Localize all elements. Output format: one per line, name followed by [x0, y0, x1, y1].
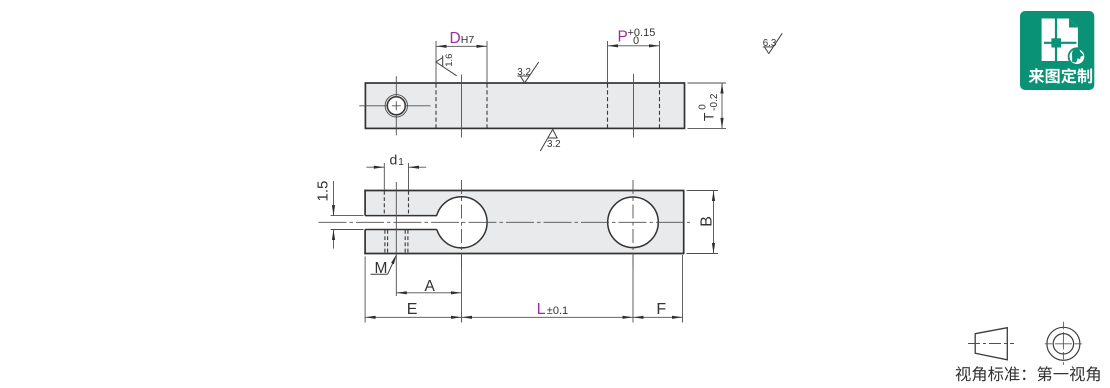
hidden hole P (dashed edges)	[608, 84, 660, 129]
svg-text:1.6: 1.6	[444, 54, 455, 67]
slit (white slot)	[364, 216, 444, 230]
thread hole M end view: center lines	[359, 76, 430, 137]
bar outline (plan view, open at slit)	[364, 190, 683, 255]
thread hole hidden lines (upper section, clearance d1)	[384, 191, 408, 215]
roughness symbol 1.6 (rotated, on D extension line)	[436, 56, 457, 76]
svg-text:1.5: 1.5	[315, 181, 332, 202]
svg-text:3.2: 3.2	[517, 67, 531, 78]
dimension E / L / F extension lines	[365, 255, 682, 323]
bar body (plan view)	[365, 191, 684, 254]
dimension P +0.15/0	[608, 41, 660, 82]
badge circle icon	[1069, 48, 1086, 65]
svg-text:T: T	[701, 112, 717, 121]
caption	[956, 366, 1100, 381]
svg-text:6.3: 6.3	[763, 38, 777, 49]
bar body (side view)	[365, 83, 684, 128]
main horizontal center line	[319, 221, 691, 223]
cone front view circles	[1047, 327, 1080, 360]
hole P center line	[633, 74, 635, 138]
thread hole M end view: circles	[385, 95, 407, 117]
svg-text:A: A	[425, 278, 436, 295]
svg-text:0: 0	[698, 104, 709, 110]
svg-text:P: P	[618, 29, 628, 46]
hidden hole D (dashed edges)	[436, 84, 487, 129]
svg-text:±0.1: ±0.1	[547, 305, 568, 317]
dimension D H7	[436, 41, 487, 82]
truncated cone side view	[975, 328, 1007, 360]
thread hole center line	[395, 182, 397, 296]
svg-text:B: B	[699, 216, 716, 227]
svg-text:3.2: 3.2	[547, 139, 561, 150]
svg-text:+0.15: +0.15	[628, 27, 656, 39]
svg-text:L: L	[537, 301, 546, 318]
badge text	[1029, 68, 1092, 83]
dimension T 0/-0.2	[688, 83, 727, 128]
hole 1 vertical center line	[461, 180, 463, 270]
roughness symbol 3.2 (bottom of bar)	[540, 129, 557, 151]
hole 2 (P)	[608, 197, 659, 248]
dimension B	[687, 191, 719, 254]
svg-text:1: 1	[398, 157, 404, 168]
svg-text:0: 0	[633, 35, 639, 47]
slit edge lines	[365, 216, 437, 230]
dimension d1	[366, 163, 426, 190]
thread hole hidden lines (lower section, thread M)	[385, 230, 408, 253]
svg-text:D: D	[450, 30, 461, 47]
dimension A	[396, 255, 461, 323]
svg-text:d: d	[390, 152, 398, 168]
roughness symbol 3.2 (top of bar)	[518, 62, 539, 83]
dimension 1.5 (slit width)	[331, 181, 364, 249]
hole D center line	[461, 75, 463, 138]
hole 2 vertical center line	[632, 180, 634, 270]
hole 1 (D)	[436, 197, 487, 248]
document icon	[1042, 19, 1078, 62]
E / L / F arrowheads	[365, 316, 682, 319]
svg-text:-0.2: -0.2	[709, 93, 720, 111]
svg-text:F: F	[656, 301, 666, 318]
svg-text:H7: H7	[461, 34, 475, 46]
roughness symbol 6.3 (general note)	[763, 33, 782, 53]
svg-text:E: E	[407, 301, 418, 318]
